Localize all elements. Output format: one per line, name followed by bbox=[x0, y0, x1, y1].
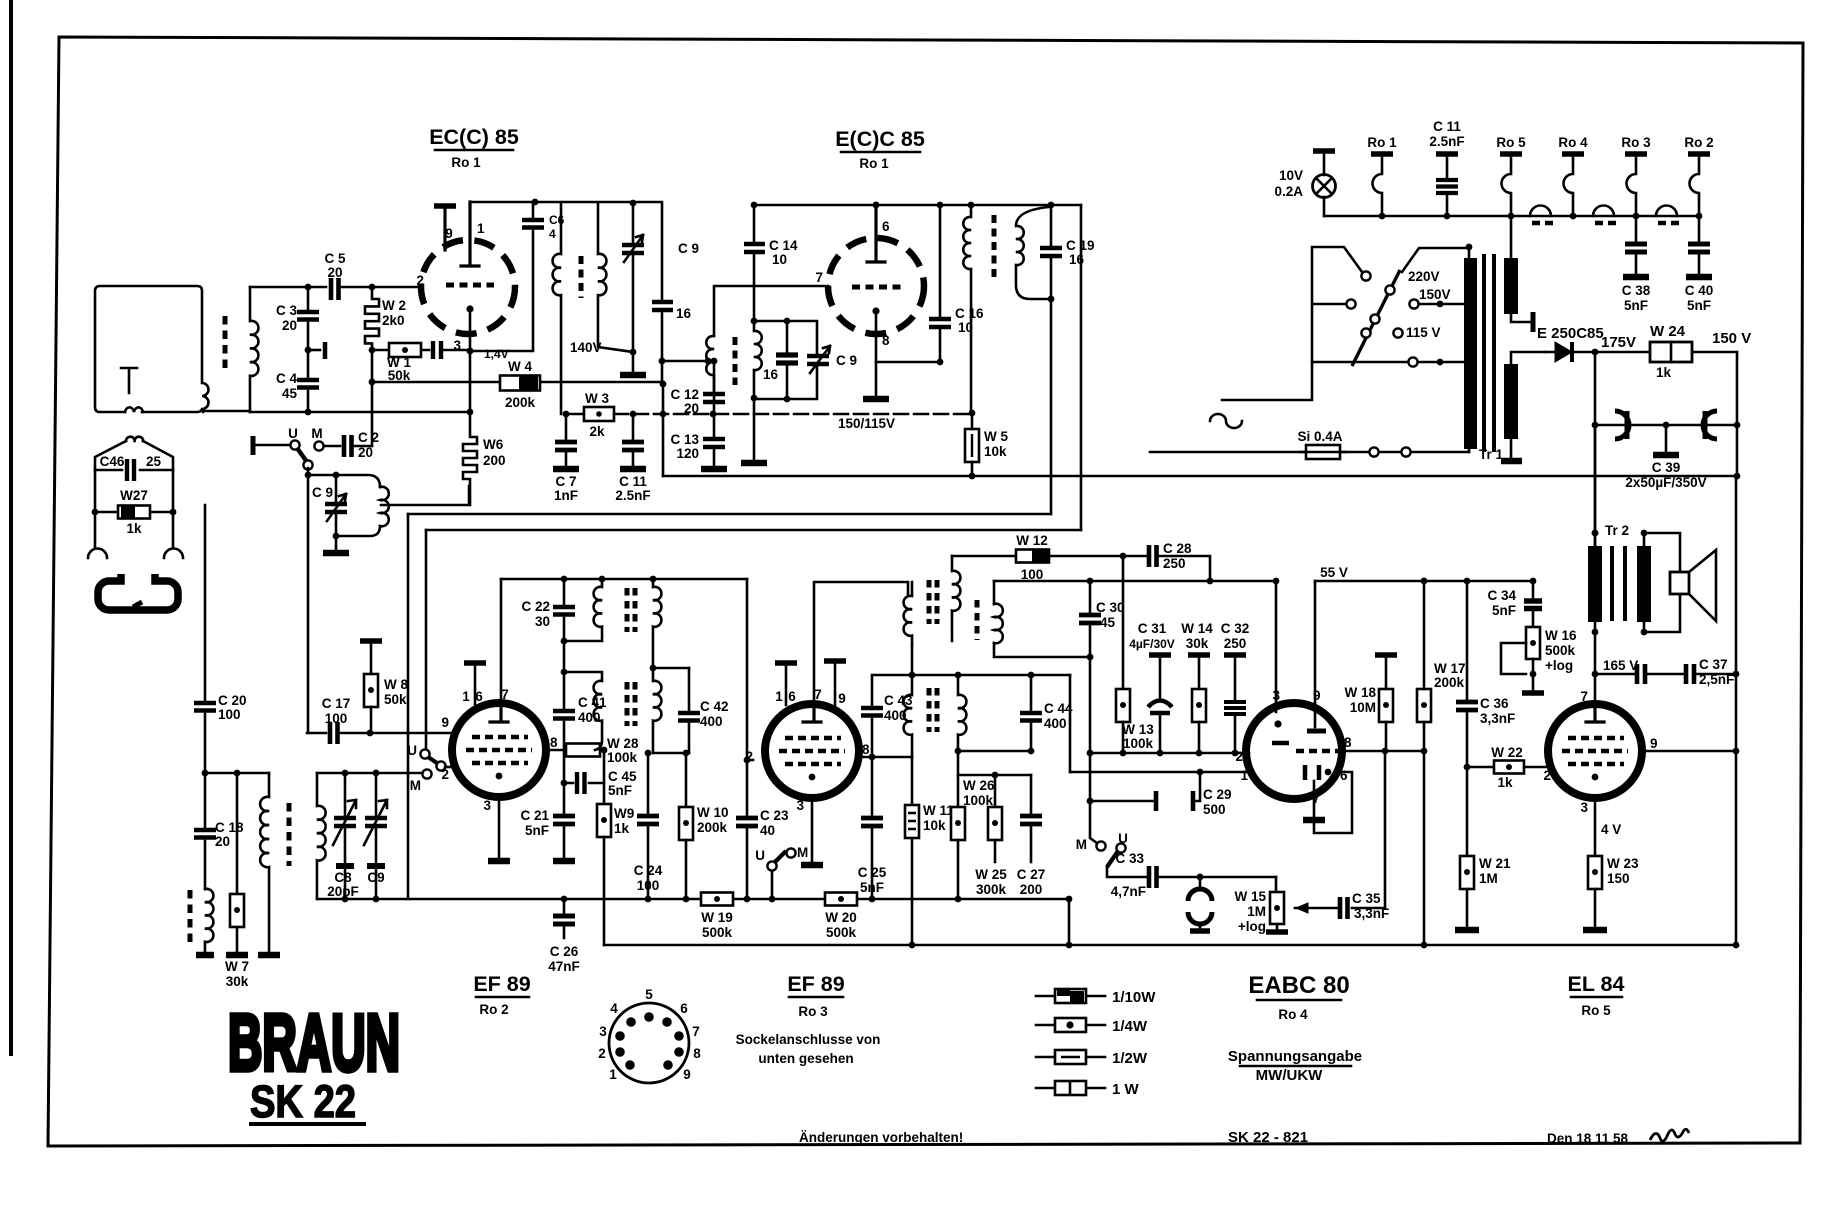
capacitor C43 400 bbox=[872, 675, 912, 705]
svg-text:10V: 10V bbox=[1279, 168, 1303, 183]
bus junction dots bbox=[561, 896, 568, 903]
svg-text:W 8: W 8 bbox=[384, 677, 408, 692]
pin7 ground bbox=[1313, 781, 1316, 817]
svg-text:C 21: C 21 bbox=[520, 808, 549, 823]
svg-text:C 9: C 9 bbox=[836, 353, 857, 368]
svg-text:W 22: W 22 bbox=[1491, 745, 1523, 760]
svg-text:W 26: W 26 bbox=[963, 778, 995, 793]
resistor W25 300k bbox=[994, 775, 997, 807]
capacitor C2 20 bbox=[324, 445, 340, 448]
capacitor C33 4.7nF bbox=[1107, 867, 1146, 877]
electrolytic C39 plate B bbox=[1703, 411, 1717, 439]
svg-text:Ro 2: Ro 2 bbox=[479, 1002, 508, 1017]
svg-text:5nF: 5nF bbox=[1687, 298, 1711, 313]
wire bbox=[1089, 657, 1092, 753]
svg-text:C 26: C 26 bbox=[550, 944, 579, 959]
svg-text:C 14: C 14 bbox=[769, 238, 798, 253]
capacitor C10 16 bbox=[661, 204, 664, 299]
svg-text:C 27: C 27 bbox=[1017, 867, 1046, 882]
svg-text:20: 20 bbox=[358, 445, 373, 460]
svg-text:Ro 3: Ro 3 bbox=[798, 1004, 828, 1019]
voltage selector bbox=[1312, 247, 1407, 362]
long wire to volume bbox=[408, 513, 1051, 516]
grid dashes bbox=[852, 285, 902, 290]
anode plate bbox=[461, 202, 479, 266]
svg-text:30: 30 bbox=[535, 614, 550, 629]
svg-text:W 13: W 13 bbox=[1122, 722, 1154, 737]
IF transformer T1 primary bbox=[553, 204, 561, 414]
svg-text:3,3nF: 3,3nF bbox=[1480, 711, 1515, 726]
svg-text:Ro 1: Ro 1 bbox=[859, 156, 889, 171]
top caps EF89-2 bbox=[775, 660, 797, 666]
anode plate bbox=[867, 204, 885, 262]
svg-text:Ro 5: Ro 5 bbox=[1581, 1003, 1611, 1018]
svg-text:U: U bbox=[407, 743, 417, 758]
resistor W17 200k bbox=[1423, 581, 1426, 689]
switch U/M AF bbox=[1090, 801, 1097, 843]
svg-text:3: 3 bbox=[1580, 800, 1588, 815]
capacitor C24 100 bbox=[645, 750, 652, 757]
svg-text:8: 8 bbox=[693, 1046, 701, 1061]
long wire to switch bbox=[426, 529, 1081, 532]
svg-text:Den 18 11 58: Den 18 11 58 bbox=[1547, 1131, 1629, 1146]
svg-text:+log: +log bbox=[1238, 919, 1266, 934]
svg-text:30k: 30k bbox=[1186, 636, 1209, 651]
svg-text:2k0: 2k0 bbox=[382, 313, 405, 328]
svg-text:C 5: C 5 bbox=[324, 251, 346, 266]
svg-text:C 45: C 45 bbox=[608, 769, 637, 784]
capacitor C11 2.5nF bbox=[632, 414, 635, 439]
wire bbox=[958, 774, 1031, 777]
svg-text:200k: 200k bbox=[697, 820, 728, 835]
svg-text:C 3: C 3 bbox=[276, 303, 298, 318]
svg-text:7: 7 bbox=[814, 687, 822, 702]
svg-text:10: 10 bbox=[772, 252, 787, 267]
svg-text:W 14: W 14 bbox=[1181, 621, 1213, 636]
resistor W4 200k bbox=[500, 376, 540, 391]
svg-text:220V: 220V bbox=[1408, 269, 1440, 284]
svg-text:165 V: 165 V bbox=[1603, 658, 1638, 673]
capacitor C44 400 bbox=[1030, 675, 1033, 710]
wire bbox=[205, 772, 269, 775]
svg-text:200: 200 bbox=[1020, 882, 1043, 897]
capacitor C6 4 feedback bbox=[532, 202, 535, 217]
resistor W26 100k bbox=[957, 751, 960, 807]
capacitor C45 5nF bbox=[564, 750, 604, 783]
svg-text:150: 150 bbox=[1607, 871, 1630, 886]
svg-text:1: 1 bbox=[775, 689, 783, 704]
IF4 core bbox=[927, 688, 932, 732]
svg-text:W27: W27 bbox=[120, 488, 148, 503]
detector coil bbox=[994, 604, 1003, 644]
Tr1 HT winding bbox=[1504, 364, 1518, 439]
svg-text:7: 7 bbox=[692, 1024, 700, 1039]
svg-text:2: 2 bbox=[1235, 749, 1243, 764]
wire bbox=[912, 674, 1070, 677]
tuning coil primary bbox=[260, 773, 269, 952]
antenna loop coupling coil bbox=[125, 407, 143, 412]
svg-text:2: 2 bbox=[598, 1046, 606, 1061]
grid2 top cap bbox=[464, 660, 486, 666]
svg-text:1/10W: 1/10W bbox=[1112, 989, 1156, 1006]
phono hook right bbox=[164, 549, 183, 559]
tuning coil core bbox=[287, 803, 292, 866]
antenna trimmer tap bbox=[121, 368, 137, 393]
capacitor C22 30 bbox=[563, 579, 566, 604]
svg-text:8: 8 bbox=[862, 742, 870, 757]
svg-text:4 V: 4 V bbox=[1601, 822, 1621, 837]
variable capacitor C8 bbox=[344, 773, 347, 815]
svg-text:W 16: W 16 bbox=[1545, 628, 1577, 643]
svg-text:8: 8 bbox=[550, 735, 558, 750]
tuning coil secondary bbox=[317, 773, 326, 899]
Tr1 heater winding bbox=[1510, 216, 1513, 258]
svg-text:Sockelanschlusse von: Sockelanschlusse von bbox=[736, 1032, 881, 1047]
pin8 wire bbox=[859, 756, 912, 759]
wire bbox=[371, 350, 374, 382]
svg-text:1/4W: 1/4W bbox=[1112, 1018, 1148, 1035]
legend 1/2W bbox=[1036, 1056, 1105, 1059]
frame antenna loop bbox=[95, 286, 209, 412]
capacitor C14 10 bbox=[753, 205, 756, 241]
svg-text:BRAUN: BRAUN bbox=[228, 998, 400, 1087]
svg-text:2x50µF/350V: 2x50µF/350V bbox=[1625, 475, 1706, 490]
svg-text:2: 2 bbox=[1543, 768, 1551, 783]
svg-text:C 40: C 40 bbox=[1685, 283, 1714, 298]
IF out transformer primary bbox=[963, 205, 971, 412]
resistor W13 100k bbox=[1122, 556, 1125, 689]
grid dashes bbox=[446, 283, 494, 288]
wire AVC dash bbox=[614, 413, 973, 416]
AM antenna coil bbox=[205, 889, 213, 952]
capacitor C12 20 bbox=[713, 361, 716, 391]
detector core bbox=[975, 600, 980, 640]
tube EF89 (2) envelope bbox=[765, 704, 859, 798]
svg-text:C8: C8 bbox=[334, 870, 352, 885]
svg-text:20: 20 bbox=[282, 318, 297, 333]
svg-text:W6: W6 bbox=[483, 437, 504, 452]
IF3 secondary coil bbox=[952, 556, 960, 641]
capacitor C34 5nF bbox=[1532, 581, 1535, 598]
potentiometer W16 500k +log bbox=[1526, 627, 1540, 659]
AC symbol bbox=[1210, 414, 1242, 428]
svg-text:Änderungen vorbehalten!: Änderungen vorbehalten! bbox=[799, 1130, 963, 1145]
svg-text:6: 6 bbox=[788, 689, 796, 704]
svg-text:140V: 140V bbox=[570, 340, 602, 355]
loop bottom wire bbox=[958, 750, 1031, 753]
wire bbox=[204, 505, 207, 700]
IF2 secondary coil lower bbox=[653, 668, 661, 753]
svg-text:EF 89: EF 89 bbox=[787, 972, 844, 996]
svg-text:W 2: W 2 bbox=[382, 298, 406, 313]
svg-text:100k: 100k bbox=[607, 750, 638, 765]
svg-text:2.5nF: 2.5nF bbox=[1429, 134, 1464, 149]
capacitor C28 250 bbox=[1149, 545, 1157, 567]
crossover hump 1 bbox=[1530, 206, 1551, 217]
tube EL84 envelope bbox=[1548, 704, 1642, 798]
wire bbox=[250, 286, 326, 289]
svg-text:400: 400 bbox=[1044, 716, 1067, 731]
svg-text:25: 25 bbox=[146, 454, 162, 469]
wire pin6 anode up bbox=[873, 202, 880, 209]
capacitor C46 25 bbox=[95, 469, 173, 472]
svg-text:C 25: C 25 bbox=[858, 865, 887, 880]
resistor W20 500k bbox=[825, 893, 857, 906]
svg-text:M: M bbox=[1076, 837, 1087, 852]
capacitor C29 500 bbox=[1087, 798, 1094, 805]
wire bbox=[203, 410, 468, 412]
scan artifact: black strip at left image edge bbox=[9, 0, 13, 1056]
wire bbox=[662, 361, 663, 476]
pin6 loop bbox=[1314, 772, 1352, 833]
tank top wire bbox=[317, 772, 421, 775]
svg-text:7: 7 bbox=[1580, 689, 1588, 704]
resistor W28 100k bbox=[546, 749, 566, 752]
right feedback rail bbox=[1735, 476, 1738, 945]
cathode wire bbox=[876, 361, 940, 364]
capacitor C26 47nF bbox=[563, 899, 566, 913]
svg-text:10k: 10k bbox=[923, 818, 946, 833]
pin9 wire bbox=[1314, 581, 1317, 727]
node tap bbox=[305, 347, 312, 354]
svg-text:unten gesehen: unten gesehen bbox=[758, 1051, 853, 1066]
capacitor C35 3.3nF with wiper arrow bbox=[1352, 751, 1385, 908]
svg-text:3,3nF: 3,3nF bbox=[1354, 906, 1389, 921]
capacitor C38 5nF bbox=[1635, 216, 1638, 241]
tube EF89 (1) envelope bbox=[452, 703, 546, 797]
svg-text:2: 2 bbox=[441, 767, 449, 782]
svg-text:C 4: C 4 bbox=[276, 371, 298, 386]
Tr2 primary bottom to anode bbox=[1594, 622, 1597, 704]
wire bbox=[1089, 753, 1092, 801]
resistor W5 10k bbox=[969, 410, 976, 417]
svg-text:100k: 100k bbox=[1123, 736, 1154, 751]
svg-text:W 18: W 18 bbox=[1344, 685, 1376, 700]
svg-text:M: M bbox=[311, 426, 322, 441]
wire sec bottom to gnd bbox=[753, 398, 756, 460]
capacitor C25 5nF bbox=[871, 757, 874, 815]
det tank primary coil bbox=[706, 336, 714, 399]
svg-text:Spannungsangabe: Spannungsangabe bbox=[1228, 1048, 1362, 1065]
svg-text:40: 40 bbox=[760, 823, 775, 838]
svg-text:1 W: 1 W bbox=[1112, 1081, 1140, 1098]
svg-text:500: 500 bbox=[1203, 802, 1226, 817]
svg-text:10M: 10M bbox=[1350, 700, 1376, 715]
svg-text:2k: 2k bbox=[589, 424, 605, 439]
svg-text:16: 16 bbox=[763, 367, 779, 382]
svg-text:1k: 1k bbox=[126, 521, 142, 536]
svg-text:W 7: W 7 bbox=[225, 959, 249, 974]
svg-text:7: 7 bbox=[815, 270, 823, 285]
long wire 175V rail return bbox=[663, 475, 1737, 478]
bus corner to lower bus bbox=[1066, 896, 1073, 903]
svg-text:100: 100 bbox=[218, 707, 241, 722]
svg-text:500k: 500k bbox=[826, 925, 857, 940]
svg-text:C 31: C 31 bbox=[1138, 621, 1167, 636]
cap 16 bbox=[754, 320, 787, 323]
speaker bbox=[1644, 533, 1680, 632]
IF2 primary coil lower bbox=[564, 672, 602, 750]
crossover hump 3 bbox=[1656, 206, 1677, 217]
svg-text:5nF: 5nF bbox=[860, 880, 884, 895]
IF2 primary coil upper bbox=[564, 579, 602, 641]
EF89-2 interior bbox=[803, 705, 821, 722]
det tank secondary coil bbox=[754, 321, 762, 398]
svg-text:C 2: C 2 bbox=[358, 430, 379, 445]
capacitor C40 5nF bbox=[1698, 216, 1701, 241]
IF out core bbox=[992, 215, 997, 280]
svg-text:1M: 1M bbox=[1479, 871, 1498, 886]
transformer Tr1 primary bbox=[1468, 247, 1471, 452]
svg-text:W 3: W 3 bbox=[585, 391, 609, 406]
svg-text:6: 6 bbox=[1340, 768, 1348, 783]
svg-text:4,7nF: 4,7nF bbox=[1111, 884, 1146, 899]
svg-text:C 11: C 11 bbox=[1433, 119, 1461, 134]
cathode to ground bbox=[498, 797, 501, 858]
svg-text:1/2W: 1/2W bbox=[1112, 1050, 1148, 1067]
potentiometer W15 1M +log bbox=[1275, 877, 1278, 892]
svg-text:20: 20 bbox=[215, 834, 230, 849]
wire B+ down to output bbox=[1594, 425, 1597, 546]
svg-text:Si 0.4A: Si 0.4A bbox=[1297, 429, 1342, 444]
svg-text:5nF: 5nF bbox=[525, 823, 549, 838]
svg-text:9: 9 bbox=[1650, 736, 1658, 751]
anode rail corner bbox=[500, 579, 503, 704]
capacitor C19 16 bbox=[1050, 205, 1053, 245]
svg-text:W9: W9 bbox=[614, 806, 634, 821]
svg-text:MW/UKW: MW/UKW bbox=[1256, 1067, 1323, 1084]
trimmer cap on T1 bbox=[632, 203, 635, 242]
svg-text:2.5nF: 2.5nF bbox=[615, 488, 650, 503]
resistor W6 200 zigzag bbox=[463, 412, 477, 505]
svg-text:5nF: 5nF bbox=[1492, 603, 1516, 618]
svg-text:C 35: C 35 bbox=[1352, 891, 1381, 906]
svg-text:C 37: C 37 bbox=[1699, 657, 1728, 672]
cathode ground bbox=[811, 798, 814, 862]
svg-text:W 15: W 15 bbox=[1234, 889, 1266, 904]
svg-text:C 29: C 29 bbox=[1203, 787, 1232, 802]
IF2 secondary coil upper bbox=[653, 579, 661, 668]
variable capacitor C9 bbox=[375, 773, 378, 815]
wire grid bias bbox=[372, 381, 663, 384]
resistor W11 10k bbox=[911, 757, 914, 805]
svg-text:16: 16 bbox=[676, 306, 692, 321]
svg-text:1,4V: 1,4V bbox=[484, 347, 509, 361]
capacitor C17 100 bbox=[307, 732, 326, 735]
svg-text:C 9: C 9 bbox=[678, 241, 699, 256]
svg-text:Ro 2: Ro 2 bbox=[1684, 135, 1713, 150]
svg-text:W 11: W 11 bbox=[923, 803, 954, 818]
svg-text:1k: 1k bbox=[1497, 775, 1513, 790]
capacitor C42 400 bbox=[688, 668, 691, 710]
resistor W18 10M bbox=[1375, 652, 1397, 658]
svg-text:U: U bbox=[288, 426, 298, 441]
trimmer C9 bbox=[335, 475, 338, 501]
IF2 core bbox=[625, 588, 630, 632]
B+ rail 55V left bbox=[501, 578, 747, 581]
svg-text:500k: 500k bbox=[1545, 643, 1576, 658]
svg-text:W 28: W 28 bbox=[607, 736, 639, 751]
capacitor C37 2.5nF tone bbox=[1595, 673, 1634, 676]
svg-text:45: 45 bbox=[282, 386, 298, 401]
wire grid input bbox=[372, 286, 421, 289]
svg-text:C 28: C 28 bbox=[1163, 541, 1192, 556]
capacitor C30 45 bbox=[1089, 581, 1092, 612]
svg-text:SK 22: SK 22 bbox=[250, 1076, 356, 1127]
svg-text:5nF: 5nF bbox=[1624, 298, 1648, 313]
svg-text:W 12: W 12 bbox=[1016, 533, 1048, 548]
svg-text:SK 22 - 821: SK 22 - 821 bbox=[1228, 1129, 1308, 1146]
resistor W7 30k bbox=[236, 773, 239, 894]
svg-text:100: 100 bbox=[637, 878, 660, 893]
pin3 wire from detector bbox=[1275, 581, 1278, 712]
svg-text:C 32: C 32 bbox=[1221, 621, 1250, 636]
IF3 core bbox=[927, 580, 932, 624]
capacitor C36 3.3nF bbox=[1466, 581, 1469, 699]
svg-text:5: 5 bbox=[645, 987, 653, 1002]
svg-text:3: 3 bbox=[483, 798, 491, 813]
svg-text:W 17: W 17 bbox=[1434, 661, 1466, 676]
phono hook left bbox=[88, 549, 107, 559]
svg-text:250: 250 bbox=[1224, 636, 1247, 651]
svg-text:C 13: C 13 bbox=[670, 432, 699, 447]
svg-text:55 V: 55 V bbox=[1320, 565, 1348, 580]
svg-text:Ro 4: Ro 4 bbox=[1278, 1007, 1308, 1022]
svg-text:W 25: W 25 bbox=[975, 867, 1007, 882]
svg-text:2: 2 bbox=[745, 749, 753, 764]
AM antenna coil core bbox=[188, 890, 193, 943]
svg-text:7: 7 bbox=[501, 687, 509, 702]
svg-text:W 10: W 10 bbox=[697, 805, 729, 820]
IF4 junction bbox=[909, 672, 916, 679]
svg-text:W 19: W 19 bbox=[701, 910, 733, 925]
svg-text:C6: C6 bbox=[549, 213, 565, 227]
wire grid2 bbox=[747, 759, 753, 762]
grid wire pin7 bbox=[714, 286, 828, 336]
svg-text:150 V: 150 V bbox=[1712, 330, 1751, 347]
resistor W2 2k0 zigzag bbox=[365, 287, 379, 350]
svg-text:M: M bbox=[797, 845, 808, 860]
cathode bbox=[466, 305, 473, 312]
capacitor C16 10 bbox=[939, 205, 942, 316]
resistor W12 100 bbox=[1016, 550, 1049, 563]
svg-text:200k: 200k bbox=[1434, 675, 1465, 690]
svg-text:3: 3 bbox=[796, 798, 804, 813]
capacitor C13 120 bbox=[713, 414, 716, 436]
filter node bbox=[1594, 352, 1597, 425]
svg-text:C 18: C 18 bbox=[215, 820, 244, 835]
capacitor C4 45 bbox=[307, 350, 310, 377]
svg-text:500k: 500k bbox=[702, 925, 733, 940]
svg-text:300k: 300k bbox=[976, 882, 1007, 897]
svg-text:20: 20 bbox=[327, 265, 342, 280]
svg-text:EF 89: EF 89 bbox=[473, 972, 530, 996]
resistor W24 1k bbox=[1595, 351, 1650, 354]
EF89-1 interior bbox=[490, 704, 508, 722]
svg-text:C 12: C 12 bbox=[670, 387, 699, 402]
svg-text:C9: C9 bbox=[367, 870, 384, 885]
cathode 4V bbox=[1594, 798, 1597, 856]
resistor W8 50k bbox=[360, 638, 382, 644]
heater bus bbox=[1324, 215, 1699, 218]
svg-text:Tr 1: Tr 1 bbox=[1479, 447, 1504, 462]
svg-text:200: 200 bbox=[483, 453, 506, 468]
switch U/M band selector bbox=[251, 436, 256, 455]
svg-text:C 44: C 44 bbox=[1044, 701, 1073, 716]
svg-text:C 42: C 42 bbox=[700, 699, 729, 714]
svg-text:3: 3 bbox=[599, 1024, 607, 1039]
svg-text:C 7: C 7 bbox=[555, 474, 576, 489]
